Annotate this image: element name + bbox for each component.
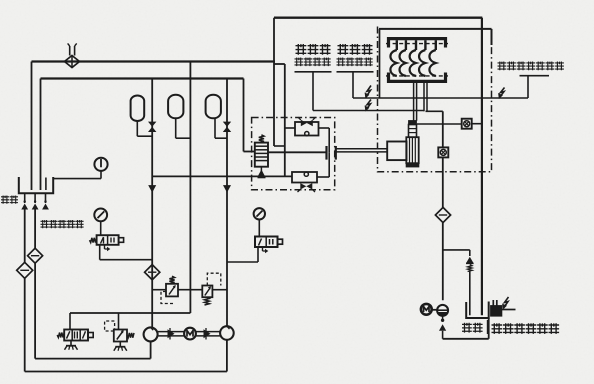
accumulator A2 <box>168 95 190 138</box>
wire: drill top to sensor X2 <box>417 123 482 125</box>
lightning sym 2 <box>365 100 371 112</box>
wire: pump1 suction <box>150 341 152 358</box>
signal wire pressure transducer <box>313 72 424 111</box>
wire: bottom bus y371 <box>25 371 227 373</box>
wire: riser tank inlet left <box>31 62 33 191</box>
cooler box top <box>379 29 492 98</box>
wire: jog to feeder <box>274 64 285 146</box>
electric motor M1 <box>184 328 196 340</box>
lightning sym 3 <box>498 88 504 100</box>
wire: suction line B <box>34 210 36 249</box>
check valve K3 under tank <box>21 193 28 209</box>
rock drill RD1 (striped) <box>406 121 418 167</box>
valve block enclosure (dash-dot) <box>252 118 335 190</box>
filter F3 on riser <box>145 265 160 280</box>
wire: right long drop <box>481 18 483 316</box>
label: dian-dong-wen-du-zhuan-huan-qi (7 chars) <box>498 62 564 71</box>
filter F4 <box>435 207 450 222</box>
label: dian-dong-ya (3 chars) <box>296 44 331 55</box>
wire: top loop line <box>274 17 482 19</box>
wire: SV1 out to feeder <box>268 151 285 153</box>
wire: inlet drop x243 <box>244 79 255 152</box>
gauge G3 <box>254 208 265 236</box>
wire: mid bus y358 <box>35 358 151 360</box>
wire: DCV2 drop <box>69 313 71 330</box>
label: li-zhuan-huan-qi (4 chars) <box>295 58 331 67</box>
check valve K5 drain stub <box>42 193 49 209</box>
cooler dashed line bottom <box>386 75 448 77</box>
wire: RV3 drop <box>118 313 120 329</box>
oil tank T2 <box>466 302 489 319</box>
check valve K6 <box>466 257 474 272</box>
cooler outlet pipe 2 <box>424 83 443 111</box>
piston rod lines <box>336 149 387 152</box>
wire: left return bus <box>32 60 276 62</box>
quick coupling QC1 <box>327 146 336 160</box>
immersion heater HT1 <box>491 297 516 316</box>
wire: bottom throttle return <box>317 152 329 177</box>
wire: feeder drop x285 <box>284 64 286 177</box>
drain pump motor M2 <box>421 304 432 315</box>
damper piston body <box>387 142 406 161</box>
relief valve RV3 <box>105 321 134 351</box>
drive shaft M1-P2 <box>196 328 220 340</box>
wire: drop to sensor block <box>442 111 444 147</box>
wire: sensor to filter <box>442 157 444 207</box>
label: you-guan-pai-you-guan (5 chars) <box>41 220 84 228</box>
wire: pressure line y176 <box>152 175 292 177</box>
hydraulic pump P2 <box>220 326 234 340</box>
cooler top header <box>389 39 446 50</box>
wire: drop from return bus x190 <box>189 62 191 314</box>
sensor block X2 <box>462 119 472 129</box>
tank2 label divider <box>487 320 489 334</box>
cooler bottom header <box>389 73 446 82</box>
wire: pump2 riser x227 <box>226 79 228 327</box>
wire: pump2 suction <box>226 340 228 372</box>
label: dian-dong-wen (3 chars) <box>338 44 373 55</box>
gauge valve V2 <box>227 237 283 263</box>
transducer label underline 1 <box>295 71 332 73</box>
cooler dashed line top <box>386 43 448 45</box>
wire: gauge G1 to tank <box>53 178 101 180</box>
wire: vert x275 top corner <box>273 18 275 146</box>
wire: branch to check K6 <box>443 250 470 256</box>
relief valve RV1 <box>161 276 178 303</box>
sensor block X1 <box>438 147 448 157</box>
wire: unload header y313 <box>70 312 190 314</box>
hydraulic pump P1 <box>144 327 158 341</box>
wire: relief header y290 <box>152 289 227 291</box>
wire: return line to tank2 <box>443 318 489 339</box>
wire: tank dip tube <box>45 178 47 191</box>
check valve K7 under pump <box>439 316 446 339</box>
label: you-guan left (2 chars) <box>1 196 18 204</box>
filter F2 <box>28 248 43 263</box>
cooler outlet pipe 1 <box>414 83 417 121</box>
wire: riser tank inlet mid <box>40 79 42 191</box>
shutoff valve S2 on riser x227 <box>223 122 231 132</box>
transducer label underline 3 <box>520 75 550 77</box>
sequence valve SV1 (hatched) <box>255 135 268 178</box>
label: du-zhuan-huan-qi (4 chars) <box>337 58 373 67</box>
gauge valve V1 <box>90 235 153 260</box>
wire: check K6 into tank <box>469 272 471 316</box>
throttle TH1 (top) <box>295 117 319 136</box>
filter F1 <box>17 262 33 278</box>
check valve K4 under tank <box>32 193 39 209</box>
label: you-guan tank2 (2 chars) <box>462 323 483 333</box>
right enclosure (dash-dot) <box>378 27 492 172</box>
drain pump P3 <box>437 305 448 316</box>
check valve K2 on riser x227 <box>223 185 231 193</box>
wire: suction A to bottom bus <box>24 278 26 371</box>
breather F0 on return bus <box>65 43 80 67</box>
drive shaft P1-M1 <box>158 328 184 340</box>
wire: suction line A <box>24 210 26 263</box>
wire: motor-pump shaft <box>432 309 437 311</box>
wire: filter to pump P3 <box>442 223 444 301</box>
wire: pump1 riser x152 <box>151 79 153 328</box>
shutoff valve S1 on riser x152 <box>148 122 156 132</box>
thermometer gauge G1 <box>94 158 107 179</box>
cooler coil tubes <box>390 50 435 76</box>
check valve K1 on riser x152 <box>148 185 156 193</box>
throttle TH2 (bottom) <box>292 172 317 192</box>
unloader valve DCV2 <box>57 330 93 350</box>
relief valve RV2 <box>202 273 221 305</box>
lightning sym 1 <box>365 86 371 99</box>
label: jin-you-shi-jia-re-qi (6 chars) <box>492 323 560 334</box>
wire: left suction bus <box>41 77 244 79</box>
accumulator A3 <box>206 95 227 138</box>
transducer label underline 2 <box>337 71 374 73</box>
gauge G2 <box>94 209 107 236</box>
wire: top throttle feed <box>285 128 329 152</box>
wire: suction B to mid bus <box>34 263 36 358</box>
signal wire temp transducer <box>353 72 528 98</box>
oil tank T1 (open top) <box>19 177 53 193</box>
accumulator A1 <box>131 96 153 137</box>
wire: main line to coupling <box>285 151 327 153</box>
